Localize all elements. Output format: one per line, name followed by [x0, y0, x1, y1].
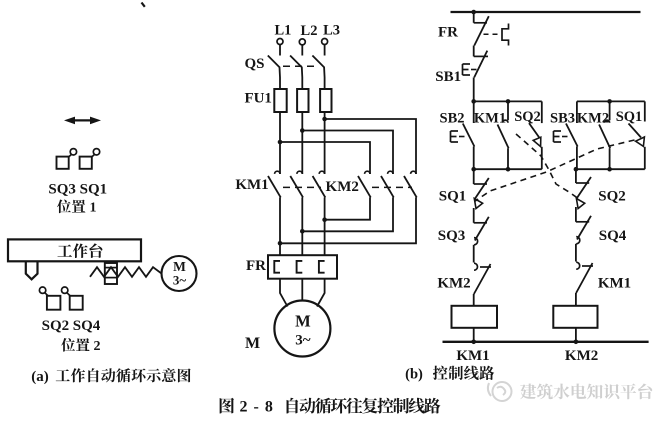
junction node on L3 wire	[322, 117, 327, 122]
label 位置1 (position 1)	[57, 199, 71, 213]
mechanical linkage dashed line SQ1	[475, 140, 635, 202]
junction node on L1 wire	[278, 140, 283, 145]
svg-text:KM2: KM2	[437, 276, 470, 292]
svg-text:(a): (a)	[31, 369, 49, 385]
svg-text:SQ3 SQ1: SQ3 SQ1	[48, 182, 107, 198]
FR linkage dashed line	[484, 33, 501, 35]
KM2 right pole crossover wire to L3 phase	[325, 197, 370, 219]
svg-text:KM1: KM1	[235, 177, 268, 193]
phase wires below fuses	[279, 112, 281, 174]
caption 图2-8 自动循环往复控制线路	[220, 398, 234, 414]
svg-text:L2: L2	[301, 23, 318, 39]
junction node on L2 wire	[300, 128, 305, 133]
control circuit top supply rail	[451, 11, 641, 13]
svg-text:FR: FR	[246, 258, 266, 274]
svg-text:SQ1: SQ1	[616, 109, 643, 125]
svg-text:SB2: SB2	[440, 111, 465, 127]
contactor KM1 main contacts	[275, 171, 280, 174]
right branch group bottom rail	[576, 168, 645, 170]
watermark text 建筑水电知识平台	[520, 384, 536, 400]
KM1 contacts coupling dashed line	[283, 186, 321, 188]
FR heater elements	[274, 261, 280, 273]
lead screw zigzag	[90, 267, 162, 277]
KM2 left pole crossover wire to L1 phase	[280, 197, 416, 243]
svg-text:SQ1: SQ1	[439, 189, 467, 205]
stray scan mark	[142, 3, 145, 7]
branch wire L1 to KM2 left pole	[280, 142, 370, 174]
svg-text:L3: L3	[323, 23, 340, 39]
wires FR to motor	[280, 279, 288, 307]
mechanical linkage dashed line SQ2	[516, 134, 578, 198]
svg-text:M: M	[245, 335, 260, 352]
label 位置2 (position 2)	[61, 338, 75, 352]
lead-screw nut block	[105, 263, 117, 284]
branch wire L3 to KM2 right pole	[325, 119, 416, 174]
svg-text:KM1: KM1	[474, 111, 506, 127]
worktable 工作台 box	[8, 239, 141, 261]
limit switch SQ1 symbol (box with roller lever)	[80, 157, 92, 169]
FR normally-closed contact	[473, 12, 475, 23]
fuse FU1 elements	[274, 89, 286, 112]
KM2 normally-closed interlock contact	[474, 263, 478, 270]
KM2 contacts coupling dashed line	[372, 186, 412, 188]
svg-text:1: 1	[90, 200, 97, 215]
FR thermal element symbol	[502, 24, 509, 46]
svg-text:(b): (b)	[405, 367, 423, 383]
svg-text:SB1: SB1	[435, 69, 461, 85]
svg-text:KM2: KM2	[326, 179, 359, 195]
SB1 pushbutton actuator E	[462, 64, 464, 75]
SQ1 normally-closed limit switch contact	[473, 169, 475, 184]
svg-text:KM2: KM2	[577, 111, 609, 127]
motor M 3~ (main circuit)	[274, 301, 330, 357]
watermark logo	[488, 382, 512, 401]
SB3 actuator E	[553, 131, 555, 142]
double-headed motion arrow	[70, 119, 95, 121]
svg-text:SQ4: SQ4	[599, 228, 627, 244]
SQ2 limit switch NO contact with actuating arrow	[541, 101, 543, 123]
limit switch SQ3 symbol (box with roller lever)	[57, 157, 69, 169]
wires KM1 poles down to FR	[279, 197, 281, 255]
svg-text:SB3: SB3	[550, 111, 575, 127]
svg-text:FU1: FU1	[244, 91, 272, 107]
svg-text:SQ3: SQ3	[438, 228, 466, 244]
KM1 normally-closed interlock contact	[576, 262, 580, 269]
KM2 auxiliary NO contact	[609, 101, 611, 120]
thermal relay FR heater box	[268, 255, 337, 279]
wire stubs from terminals	[279, 45, 281, 56]
KM1 auxiliary NO contact	[507, 101, 509, 120]
left branch group top rail	[474, 100, 542, 102]
SB2 actuator E	[450, 131, 452, 142]
control circuit bottom rail	[443, 341, 649, 343]
svg-text:3~: 3~	[173, 273, 187, 288]
left branch group bottom rail	[474, 168, 542, 170]
svg-text:SQ4: SQ4	[73, 318, 101, 334]
svg-text:SQ2: SQ2	[514, 109, 541, 125]
limit switch SQ2 symbol	[39, 287, 45, 293]
contactor coil KM2	[553, 306, 597, 328]
SB3 start button contact (NO)	[576, 101, 578, 123]
right branch group top rail	[577, 100, 645, 102]
SB2 start button contact (NO)	[473, 101, 475, 123]
contactor KM2 main contacts	[365, 171, 370, 174]
QS mechanical coupling dashed line	[283, 65, 318, 67]
svg-text:KM1: KM1	[456, 348, 489, 364]
svg-text:SQ2: SQ2	[42, 318, 70, 334]
svg-text:M: M	[295, 312, 311, 331]
SQ3 normally-closed limit switch contact	[474, 222, 487, 224]
branch wire L2 to KM2 middle pole	[302, 131, 393, 175]
svg-text:2 - 8: 2 - 8	[240, 398, 274, 415]
limit switch SQ4 symbol	[61, 287, 67, 293]
QS switch blades	[268, 56, 280, 90]
SB1 normally-closed stop button contact	[474, 55, 488, 57]
svg-text:QS: QS	[244, 56, 264, 72]
svg-text:L1: L1	[274, 23, 291, 39]
SQ1 limit switch NO contact with actuating arrow	[644, 101, 646, 121]
svg-text:3~: 3~	[295, 333, 311, 349]
SQ2 normally-closed limit switch contact	[575, 169, 577, 183]
KM2 middle pole crossover wire	[302, 197, 393, 231]
svg-text:2: 2	[94, 339, 101, 354]
motor M 3~ circle (panel a)	[162, 256, 197, 291]
contactor coil KM1	[452, 306, 498, 328]
supply terminal circles	[277, 39, 283, 45]
svg-text:KM2: KM2	[565, 348, 598, 364]
svg-text:FR: FR	[438, 24, 458, 40]
SQ4 normally-closed limit switch contact	[576, 221, 589, 223]
label 工作台	[57, 244, 72, 256]
svg-text:KM1: KM1	[598, 276, 631, 292]
pointer under worktable	[26, 262, 38, 280]
svg-text:SQ2: SQ2	[598, 189, 626, 205]
